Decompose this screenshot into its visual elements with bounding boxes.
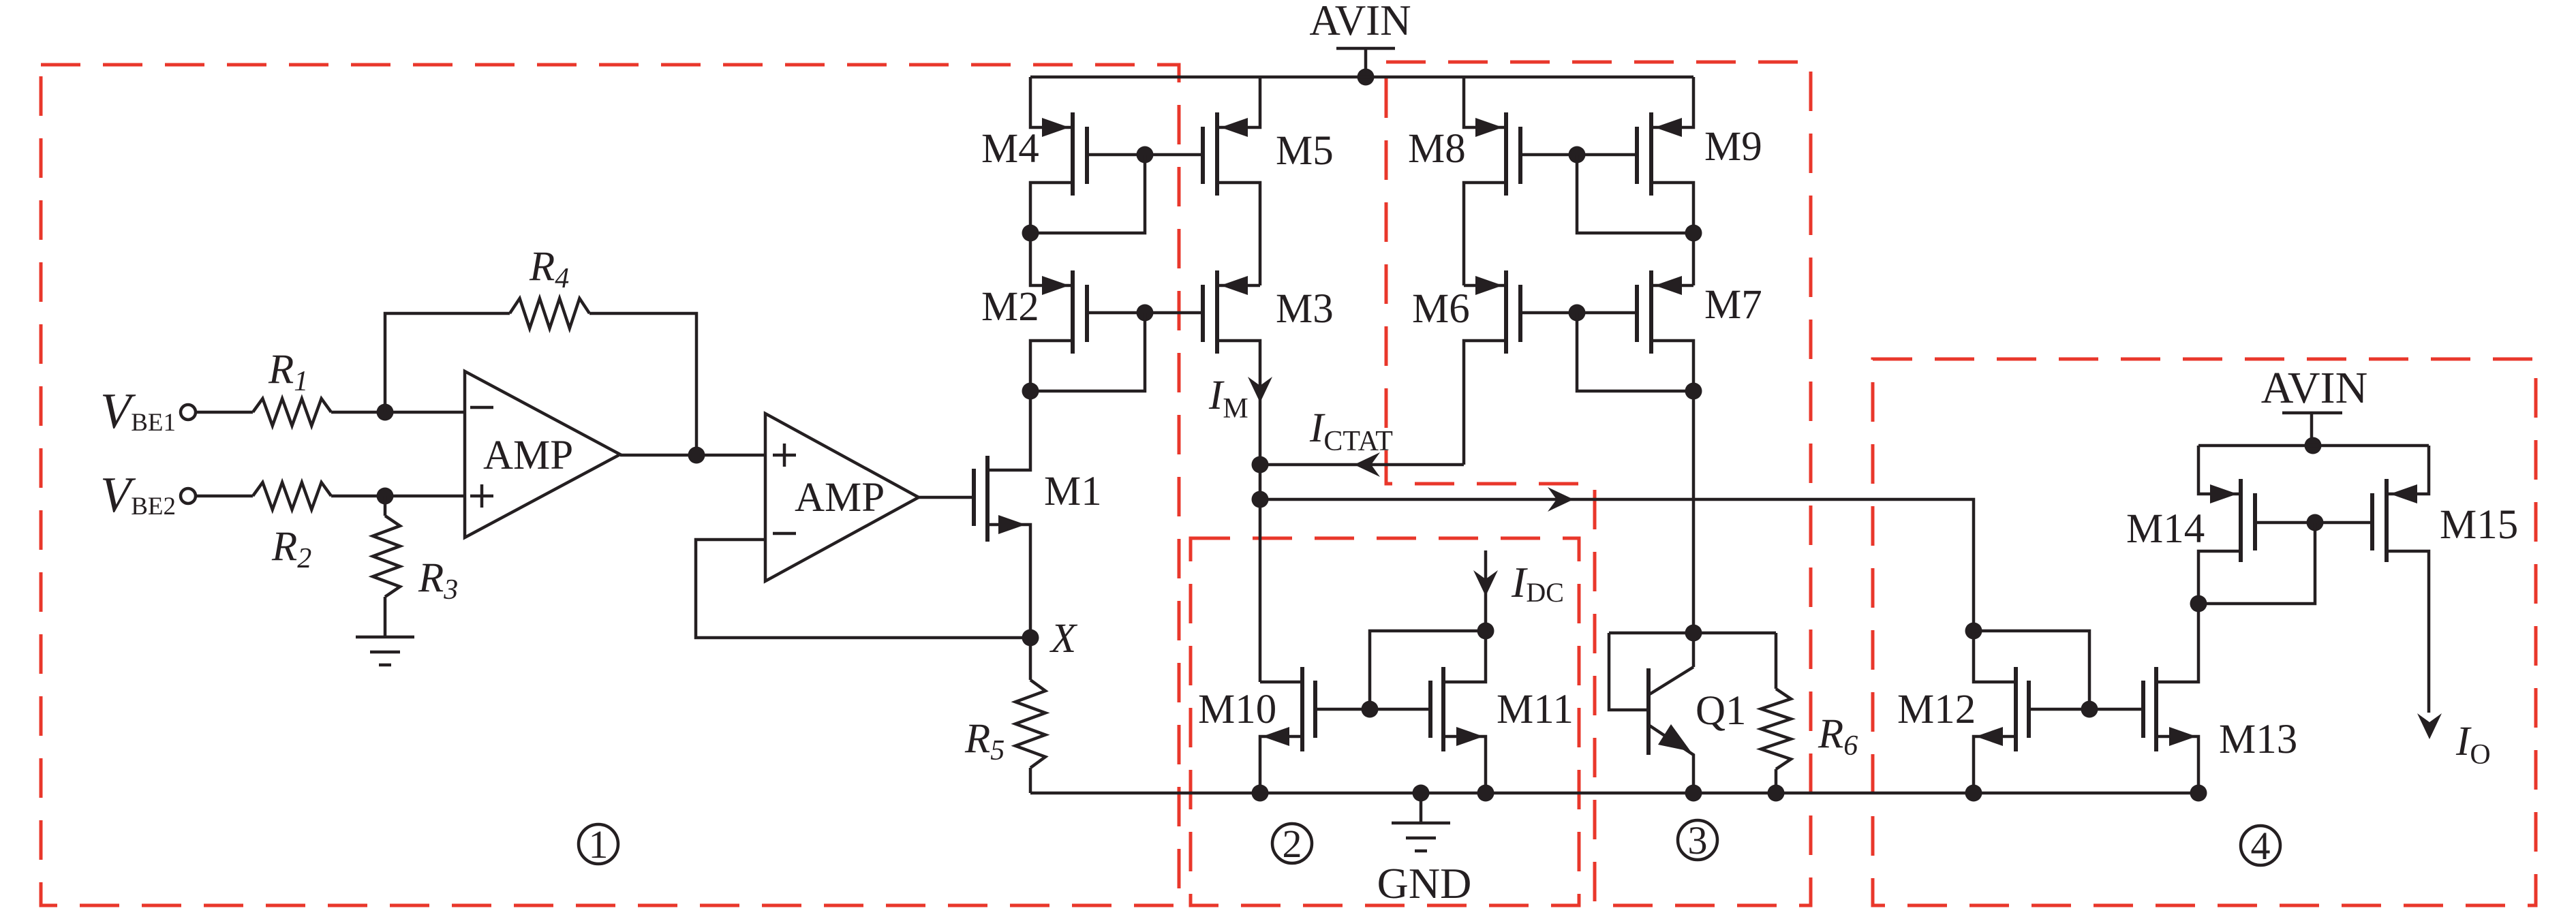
svg-text:AVIN: AVIN — [1309, 0, 1411, 44]
label circled 1 — [579, 822, 618, 867]
node R2 junction — [377, 488, 394, 505]
wire VBE1 to R1 — [196, 411, 253, 414]
label IO — [2455, 719, 2491, 771]
svg-text:M1: M1 — [1044, 469, 1102, 514]
transistor M11 — [1370, 631, 1486, 793]
transistor M5 — [1145, 77, 1260, 285]
node ICTAT junction — [1252, 456, 1269, 473]
current IM arrow — [1248, 377, 1272, 403]
node rail M13 — [2190, 785, 2207, 802]
svg-text:AMP: AMP — [795, 475, 885, 520]
node rail R6 — [1768, 785, 1785, 802]
resistor R3 — [373, 496, 400, 597]
current arrow on long wire — [1548, 487, 1574, 512]
wire R4 left branch — [385, 313, 510, 412]
label ICTAT — [1309, 405, 1393, 457]
label M4 — [981, 126, 1039, 172]
node M8 M9 gates — [1569, 146, 1586, 164]
transistor M6 — [1464, 270, 1577, 465]
node M7 drain join — [1685, 383, 1702, 400]
svg-text:M6: M6 — [1412, 286, 1470, 332]
resistor R2 — [253, 482, 331, 510]
node IDC junction — [1477, 623, 1494, 640]
label R6 — [1818, 711, 1858, 762]
label M6 — [1412, 286, 1470, 332]
transistor M12 — [1974, 631, 2089, 793]
transistor M2 — [1030, 233, 1145, 391]
svg-text:M3: M3 — [1276, 286, 1334, 332]
label IM — [1208, 373, 1248, 424]
label M2 — [981, 284, 1039, 330]
wire M8 M9 gates to M9 drain — [1577, 155, 1693, 233]
label R1 — [268, 347, 308, 397]
node M14 drain — [2190, 595, 2207, 612]
transistor M15 — [2315, 446, 2429, 713]
wire M12 gate to drain — [1974, 631, 2089, 709]
label IDC — [1511, 558, 1564, 608]
node AMP1 output — [688, 447, 705, 464]
label circled 3 — [1678, 818, 1717, 862]
label VBE1 — [100, 384, 176, 439]
wire M2 M3 gates to M2 drain — [1030, 313, 1145, 391]
label M3 — [1276, 286, 1334, 332]
transistor M4 — [1030, 77, 1145, 233]
current IO arrow — [2417, 713, 2442, 739]
wire AMP2 output to M1 gate — [919, 496, 974, 499]
svg-text:4: 4 — [2251, 824, 2271, 868]
current IDC arrow — [1473, 550, 1498, 631]
node Q1 collector — [1685, 625, 1702, 642]
op-amp U1 — [465, 371, 620, 538]
section box 4 (red dashed) — [1873, 359, 2536, 905]
node rail Q1 emitter — [1685, 785, 1702, 802]
label M13 — [2219, 717, 2297, 762]
svg-text:M12: M12 — [1897, 687, 1976, 732]
wire VBE2 to R2 — [196, 495, 253, 498]
label M15 — [2440, 502, 2518, 548]
wire node to M12 drain (long) — [1260, 499, 1974, 631]
wire R2 to AMP plus input — [331, 495, 465, 498]
section box 1 (red dashed) — [41, 65, 1179, 905]
node AVIN right junction — [2305, 437, 2322, 454]
wire R4 right branch to AMP output — [589, 313, 696, 455]
node M12 drain join — [1965, 623, 1982, 640]
ground below R3 — [356, 597, 414, 665]
label VBE2 — [100, 467, 176, 523]
transistor M9 — [1577, 77, 1693, 285]
wire Q1 collector node — [1609, 632, 1776, 635]
node rail GND — [1413, 785, 1430, 802]
current ICTAT arrow — [1354, 452, 1380, 477]
node M4 drain join — [1022, 225, 1039, 242]
svg-text:2: 2 — [1283, 822, 1302, 866]
label M12 — [1897, 687, 1976, 732]
label M1 — [1044, 469, 1102, 514]
label R2 — [271, 524, 311, 574]
transistor M13 — [2089, 604, 2198, 793]
label R5 — [964, 716, 1005, 766]
wire bottom rail — [1030, 792, 2198, 795]
transistor M7 — [1577, 270, 1693, 633]
svg-text:Q1: Q1 — [1696, 688, 1747, 734]
ground GND — [1392, 793, 1450, 851]
label AVIN right — [2261, 363, 2367, 413]
svg-text:M7: M7 — [1704, 282, 1762, 328]
wire M14 gate to drain — [2198, 523, 2315, 604]
transistor M3 — [1145, 270, 1260, 682]
node X — [1022, 630, 1039, 647]
transistor M14 — [2198, 446, 2315, 604]
svg-text:M14: M14 — [2126, 506, 2205, 552]
node M2 M3 gates — [1137, 305, 1154, 322]
label M8 — [1408, 126, 1466, 172]
label R4 — [529, 244, 569, 294]
wire M4 M5 gates to M4 drain — [1030, 155, 1145, 233]
wire AVIN top rail — [1030, 76, 1693, 79]
node rail M12 — [1965, 785, 1982, 802]
label M11 — [1497, 687, 1574, 732]
node M2 drain join — [1022, 383, 1039, 400]
svg-text:M4: M4 — [981, 126, 1039, 172]
svg-text:3: 3 — [1688, 818, 1708, 862]
label AVIN top — [1309, 0, 1411, 44]
label Q1 — [1696, 688, 1747, 734]
node M4 M5 gates — [1137, 146, 1154, 164]
wire AMP2 feedback from node X — [696, 540, 1022, 638]
svg-text:M5: M5 — [1276, 128, 1334, 174]
svg-text:1: 1 — [589, 822, 609, 867]
label circled 4 — [2241, 824, 2280, 868]
node M9 drain join — [1685, 225, 1702, 242]
transistor M10 — [1260, 667, 1370, 793]
svg-text:M9: M9 — [1704, 124, 1762, 170]
wire M11 gate to drain — [1370, 631, 1486, 709]
node rail M11 — [1477, 785, 1494, 802]
svg-text:M11: M11 — [1497, 687, 1574, 732]
power AVIN right — [2282, 413, 2342, 446]
label M9 — [1704, 124, 1762, 170]
svg-text:M8: M8 — [1408, 126, 1466, 172]
terminal VBE1 — [181, 405, 196, 420]
label M5 — [1276, 128, 1334, 174]
power AVIN top — [1336, 48, 1395, 77]
svg-text:AVIN: AVIN — [2261, 363, 2367, 413]
wire AMP1 output to AMP2 plus input — [620, 454, 765, 457]
label M10 — [1198, 687, 1276, 732]
wire ICTAT from M6 drain — [1260, 463, 1464, 467]
node M14 M15 gates — [2307, 514, 2324, 531]
op-amp U2 — [765, 414, 919, 581]
label GND — [1377, 859, 1472, 907]
wire R1 to AMP minus input — [331, 411, 465, 414]
resistor R5 — [1015, 638, 1045, 793]
label X — [1049, 616, 1078, 662]
resistor R1 — [253, 399, 331, 426]
terminal VBE2 — [181, 488, 196, 503]
section box 3 (red dashed) — [1386, 62, 1811, 905]
node M3 drain branch — [1252, 491, 1269, 508]
node R1 junction — [377, 404, 394, 421]
svg-text:M13: M13 — [2219, 717, 2297, 762]
label M7 — [1704, 282, 1762, 328]
node AVIN rail junction — [1358, 69, 1375, 86]
node M6 M7 gates — [1569, 305, 1586, 322]
node M10 M11 gates — [1362, 701, 1379, 718]
svg-text:GND: GND — [1377, 859, 1472, 907]
wire M6 M7 gates to M7 drain — [1577, 313, 1693, 391]
transistor M1 — [974, 391, 1030, 638]
svg-text:AMP: AMP — [483, 433, 573, 478]
resistor R4 — [510, 298, 589, 328]
wire M14 M15 rail — [2198, 444, 2429, 448]
section box 2 (red dashed) — [1191, 538, 1579, 905]
transistor Q1 — [1609, 633, 1693, 793]
label circled 2 — [1272, 822, 1312, 866]
node rail M10 — [1252, 785, 1269, 802]
node M12 M13 gates — [2081, 701, 2098, 718]
svg-text:M15: M15 — [2440, 502, 2518, 548]
svg-text:M10: M10 — [1198, 687, 1276, 732]
label M14 — [2126, 506, 2205, 552]
label R3 — [418, 555, 458, 606]
svg-text:M2: M2 — [981, 284, 1039, 330]
resistor R6 — [1761, 633, 1791, 793]
transistor M8 — [1464, 77, 1577, 285]
svg-text:X: X — [1049, 616, 1078, 662]
